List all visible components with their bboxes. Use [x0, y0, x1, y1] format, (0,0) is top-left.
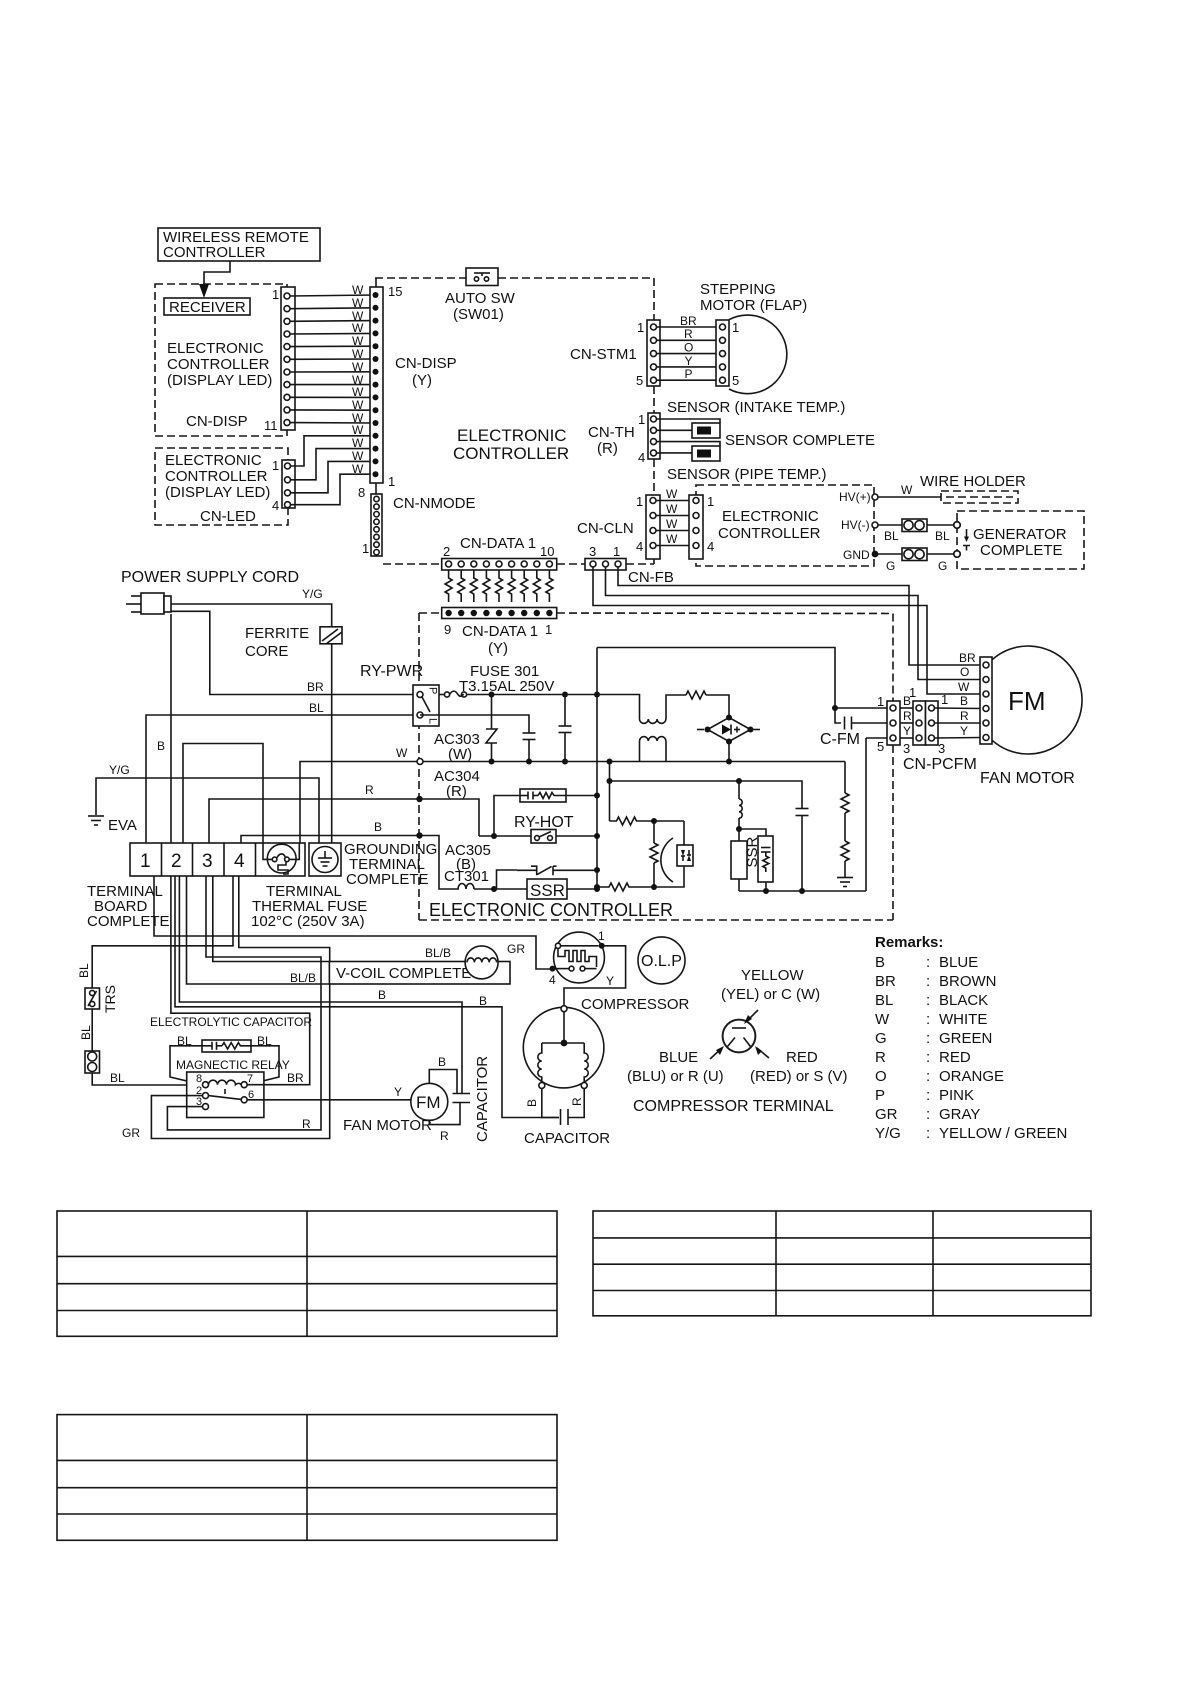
svg-text:COMPRESSOR TERMINAL: COMPRESSOR TERMINAL: [633, 1098, 834, 1115]
svg-text:CN-PCFM: CN-PCFM: [903, 756, 977, 773]
wires CN-STM1 to motor: BR R O Y P: [657, 314, 720, 381]
svg-text:(DISPLAY LED): (DISPLAY LED): [167, 372, 272, 389]
svg-text:BL/B: BL/B: [425, 946, 451, 960]
connector CN-DISP (Y) 15-pin: [370, 278, 402, 494]
svg-text:1: 1: [140, 851, 151, 872]
svg-text:CAPACITOR: CAPACITOR: [524, 1130, 610, 1147]
svg-text:1: 1: [613, 544, 620, 559]
svg-text:POWER SUPPLY CORD: POWER SUPPLY CORD: [121, 569, 299, 586]
svg-text:R: R: [960, 709, 969, 723]
svg-text:R: R: [903, 709, 912, 723]
svg-text:BROWN: BROWN: [939, 973, 997, 990]
svg-text:SENSOR (INTAKE TEMP.): SENSOR (INTAKE TEMP.): [667, 399, 845, 416]
SSR left box: [494, 879, 600, 900]
wire BL terminal4 to TRS: [92, 876, 233, 988]
wire GND G with connector pair: [878, 548, 960, 573]
svg-text:5: 5: [732, 373, 739, 388]
svg-text:1: 1: [636, 494, 643, 509]
svg-text:BL: BL: [110, 1071, 125, 1085]
svg-text:W: W: [396, 746, 408, 760]
wire BL/B to v-coil: [187, 876, 330, 984]
dashed box display controller 2: [155, 448, 288, 525]
wire plug to BR: [171, 611, 414, 694]
svg-text:BR: BR: [287, 1071, 304, 1085]
9 pullup resistors: [445, 570, 553, 602]
O.L.P: [638, 937, 685, 984]
svg-text:CN-DISP: CN-DISP: [186, 413, 248, 430]
svg-text:W: W: [352, 296, 364, 310]
capacitor across line 1: [420, 715, 536, 765]
svg-text:BL: BL: [935, 529, 950, 543]
svg-text:FAN MOTOR: FAN MOTOR: [980, 770, 1075, 787]
connector CN-DATA1 top: [442, 535, 557, 570]
sensor 2 (thermistor pipe): [657, 442, 721, 461]
svg-text:WHITE: WHITE: [939, 1011, 987, 1028]
svg-text:BLUE: BLUE: [939, 954, 978, 971]
svg-text:B: B: [438, 1055, 446, 1069]
svg-text:BR: BR: [680, 314, 697, 328]
dashed box electronic controller (cln): [696, 485, 874, 566]
wires CN-CLN W x4: [656, 487, 689, 546]
crimp arrow mark: [963, 529, 970, 551]
svg-text:ELECTROLYTIC CAPACITOR: ELECTROLYTIC CAPACITOR: [150, 1015, 312, 1029]
svg-text:O: O: [875, 1068, 887, 1085]
connector CN-CLN left 4-pin: [636, 494, 660, 559]
svg-text:GR: GR: [507, 942, 525, 956]
svg-text:1: 1: [707, 494, 714, 509]
svg-text:RED: RED: [939, 1049, 971, 1066]
wire R cell3 to relay pin3: [167, 876, 321, 1131]
magnetic relay: [176, 1058, 290, 1118]
svg-text:FM: FM: [1008, 686, 1046, 716]
compressor motor: [523, 1006, 604, 1107]
svg-text:CONTROLLER: CONTROLLER: [453, 444, 569, 463]
svg-text::: :: [926, 1030, 930, 1047]
svg-text:4: 4: [549, 973, 556, 987]
sensor 1 (thermistor intake): [657, 419, 721, 438]
svg-text:CONTROLLER: CONTROLLER: [718, 525, 821, 542]
svg-text:3: 3: [202, 851, 213, 872]
svg-text:RY-HOT: RY-HOT: [514, 814, 574, 831]
svg-text:7: 7: [247, 1073, 253, 1085]
svg-text:SENSOR (PIPE TEMP.): SENSOR (PIPE TEMP.): [667, 466, 827, 483]
capacitor across line 2: [489, 695, 572, 765]
svg-text:R: R: [365, 783, 374, 797]
svg-text:G: G: [938, 559, 947, 573]
dashed box lower electronic controller: [419, 613, 893, 920]
svg-text:CN-DATA 1: CN-DATA 1: [460, 535, 536, 552]
svg-text:3: 3: [903, 741, 910, 756]
svg-text:1: 1: [545, 622, 552, 637]
svg-text:W: W: [352, 449, 364, 463]
svg-text:BL/B: BL/B: [290, 971, 316, 985]
svg-text:ORANGE: ORANGE: [939, 1068, 1004, 1085]
svg-text:1: 1: [877, 694, 884, 709]
wire HV(+) to wire holder: [878, 496, 941, 498]
capacitor mid right: [796, 809, 809, 895]
svg-text:G: G: [875, 1030, 887, 1047]
wires CN-DISP to CN-DISP(Y) with W labels: [290, 283, 375, 425]
inductor SSR snubber block: [736, 778, 742, 832]
svg-text:(RED) or S (V): (RED) or S (V): [750, 1068, 848, 1085]
svg-text:P: P: [685, 367, 693, 381]
svg-text:(YEL) or C (W): (YEL) or C (W): [721, 986, 820, 1003]
svg-text:R: R: [440, 1129, 449, 1143]
svg-text:1: 1: [732, 320, 739, 335]
connector CN-PCFM pair: [900, 685, 948, 756]
svg-text::: :: [926, 992, 930, 1009]
svg-text:O.L.P: O.L.P: [641, 953, 682, 970]
top horizontal wire: [597, 648, 835, 709]
wire Y protector to compressor: [564, 946, 626, 1006]
svg-text:SSR: SSR: [530, 881, 565, 900]
svg-text:W: W: [666, 532, 678, 546]
triac (photo): [654, 821, 693, 887]
svg-text:1: 1: [637, 320, 644, 335]
svg-text:HV(+): HV(+): [839, 490, 871, 504]
ground EVA: [88, 816, 137, 834]
svg-text:PINK: PINK: [939, 1087, 974, 1104]
svg-text:CT301: CT301: [444, 868, 489, 885]
svg-text:B: B: [374, 820, 382, 834]
wireless remote controller box: [158, 228, 320, 261]
svg-text:RED: RED: [786, 1049, 818, 1066]
wire cell3 to v-coil top: [213, 876, 330, 962]
connector CN-DATA1 (Y) bottom: [442, 608, 557, 658]
svg-text:11: 11: [264, 418, 278, 433]
svg-text:R: R: [684, 327, 693, 341]
svg-text:5: 5: [636, 373, 643, 388]
svg-text:W: W: [901, 483, 913, 497]
svg-text:CN-TH: CN-TH: [588, 424, 635, 441]
svg-text:(R): (R): [446, 783, 467, 800]
table 3: [57, 1415, 557, 1541]
svg-text:4: 4: [234, 851, 245, 872]
grounding terminal complete: [309, 843, 341, 876]
svg-text:W: W: [352, 334, 364, 348]
svg-text:P: P: [875, 1087, 885, 1104]
compressor terminal diagram: [710, 1010, 769, 1059]
wire holder: [920, 473, 1026, 503]
fan capacitor: [429, 1055, 491, 1143]
svg-text:GREEN: GREEN: [939, 1030, 992, 1047]
stepping motor circle: [729, 315, 787, 394]
bottom wire of block: [739, 738, 866, 891]
svg-text:BL: BL: [875, 992, 893, 1009]
svg-text:T3.15AL 250V: T3.15AL 250V: [459, 678, 554, 695]
svg-text:B: B: [525, 1099, 539, 1107]
wires pair to FM connector: [935, 651, 983, 738]
wire GR cell4 to relay pin2: [122, 876, 330, 1140]
connector CN-TH: [638, 412, 660, 465]
wire TRS to fuse connector: [91, 1009, 93, 1051]
svg-text:O: O: [684, 341, 693, 355]
svg-text:BLUE: BLUE: [659, 1049, 698, 1066]
table 1: [57, 1211, 557, 1336]
wire Y/G EVA run: [96, 763, 319, 843]
svg-text:R: R: [302, 1117, 311, 1131]
Y wire relay pin6 to FM: [247, 1085, 411, 1100]
connector CN-CLN right 4-pin: [689, 494, 714, 559]
svg-text:Y: Y: [685, 354, 693, 368]
GND node: [843, 548, 878, 562]
svg-text:(W): (W): [448, 746, 472, 763]
svg-text:BLACK: BLACK: [939, 992, 988, 1009]
svg-text::: :: [926, 1087, 930, 1104]
svg-text:COMPLETE: COMPLETE: [87, 913, 170, 930]
svg-text:P: P: [427, 687, 439, 694]
svg-text:ELECTRONIC: ELECTRONIC: [457, 426, 567, 445]
thermal breaker symbol: [497, 866, 601, 889]
wire W bus drop to row781: [607, 759, 803, 809]
svg-text:1: 1: [941, 692, 948, 707]
svg-text:B: B: [875, 954, 885, 971]
electrolytic capacitor: [150, 1015, 312, 1085]
svg-text:Y: Y: [394, 1085, 402, 1099]
svg-text:B: B: [378, 988, 386, 1002]
resistor top: [686, 691, 729, 717]
svg-text::: :: [926, 1049, 930, 1066]
RY-HOT contact: [479, 830, 600, 844]
remarks legend: [875, 934, 1067, 1142]
svg-text:G: G: [886, 559, 895, 573]
AC304 (R) node: [416, 768, 480, 802]
wire B terminal4 to AC305: [241, 836, 419, 844]
CT301 current transformer: [444, 868, 497, 892]
svg-text:5: 5: [877, 739, 884, 754]
svg-text:(R): (R): [597, 440, 618, 457]
svg-text:(Y): (Y): [412, 372, 432, 389]
wire BR relay pin7 to terminal2: [171, 876, 310, 1085]
svg-text:CN-DISP: CN-DISP: [395, 355, 457, 372]
svg-text:CN-NMODE: CN-NMODE: [393, 495, 476, 512]
svg-text:(SW01): (SW01): [453, 306, 504, 323]
wire BL to relay pin8: [92, 1073, 188, 1085]
connector CN-DISP 11-pin: [264, 287, 295, 433]
TRS: [85, 985, 118, 1013]
svg-text:1: 1: [362, 541, 369, 556]
svg-text:W: W: [666, 502, 678, 516]
svg-text:MOTOR (FLAP): MOTOR (FLAP): [700, 297, 807, 314]
wire HV(-) BL with connector pair: [878, 519, 960, 543]
svg-text:W: W: [352, 347, 364, 361]
AC303 (W) node: [417, 731, 480, 765]
svg-text:3: 3: [938, 741, 945, 756]
svg-text:1: 1: [272, 287, 279, 302]
fan motor circle: [992, 646, 1082, 754]
svg-text:WIRE HOLDER: WIRE HOLDER: [920, 473, 1026, 490]
svg-text:W: W: [352, 462, 364, 476]
svg-text:EVA: EVA: [108, 817, 137, 834]
svg-text:4: 4: [638, 450, 645, 465]
wire B terminal2 to compressor capacitor: [175, 876, 559, 1118]
svg-text:W: W: [352, 321, 364, 335]
RY-HOT coil: [420, 789, 601, 836]
fan motor FM circle: [343, 1083, 448, 1134]
svg-text:B: B: [157, 739, 165, 753]
compressor internal protector: [549, 929, 605, 987]
svg-text:GR: GR: [122, 1126, 140, 1140]
terminal thermal fuse: [263, 843, 299, 874]
svg-text:CN-LED: CN-LED: [200, 508, 256, 525]
compressor capacitor: [524, 1088, 610, 1147]
svg-text:STEPPING: STEPPING: [700, 281, 776, 298]
relay RY-PWR: [360, 663, 439, 726]
wire Y row to bottom: [866, 737, 890, 739]
wire Y/G from plug to ferrite: [171, 604, 332, 627]
svg-text:FAN MOTOR: FAN MOTOR: [343, 1117, 432, 1134]
table 2: [593, 1211, 1091, 1316]
svg-text:O: O: [960, 665, 969, 679]
svg-text:ELECTRONIC CONTROLLER: ELECTRONIC CONTROLLER: [429, 900, 673, 920]
bridge rectifier: [697, 715, 760, 765]
svg-text:(Y): (Y): [488, 640, 508, 657]
svg-text:ELECTRONIC: ELECTRONIC: [722, 508, 819, 525]
svg-text:CN-FB: CN-FB: [628, 569, 674, 586]
svg-text:Remarks:: Remarks:: [875, 934, 943, 951]
svg-text:RECEIVER: RECEIVER: [169, 299, 246, 316]
svg-text:Y/G: Y/G: [302, 587, 323, 601]
connector CN-LED 4-pin: [272, 458, 295, 513]
connector CN-FB 3-pin: [585, 544, 674, 586]
svg-text:W: W: [666, 487, 678, 501]
v-coil complete: [329, 946, 510, 984]
HV(+) node: [839, 490, 878, 504]
ferrite core: [245, 625, 342, 660]
svg-text:MAGNECTIC RELAY: MAGNECTIC RELAY: [176, 1058, 290, 1072]
svg-text:2: 2: [171, 851, 182, 872]
svg-text:8: 8: [358, 485, 365, 500]
svg-text:4: 4: [272, 498, 279, 513]
svg-text:R: R: [875, 1049, 886, 1066]
svg-text:FM: FM: [416, 1093, 441, 1112]
svg-text:BL: BL: [309, 701, 324, 715]
fuse 301: [439, 663, 597, 697]
svg-text:CONTROLLER: CONTROLLER: [163, 244, 266, 261]
dashed boundary upper electronic controller: [375, 278, 654, 564]
svg-text:BL: BL: [884, 529, 899, 543]
svg-text:BR: BR: [875, 973, 896, 990]
svg-text:C-FM: C-FM: [820, 731, 860, 748]
svg-text::: :: [926, 1106, 930, 1123]
dashed box display controller 1: [155, 284, 287, 436]
svg-text:AUTO SW: AUTO SW: [445, 290, 516, 307]
svg-text:BL: BL: [77, 963, 91, 978]
wire Y/G ferrite to grounding terminal: [331, 644, 333, 843]
receiver box: [164, 298, 250, 316]
svg-text:Y: Y: [903, 724, 911, 738]
svg-text:W: W: [958, 680, 970, 694]
ground symbol: [837, 878, 853, 887]
svg-text:GRAY: GRAY: [939, 1106, 980, 1123]
svg-text:W: W: [352, 423, 364, 437]
svg-text:W: W: [352, 360, 364, 374]
wires CN-LED to CN-DISP(Y) pins 12-15: [291, 423, 376, 505]
generator complete dashed box: [954, 511, 1084, 569]
inline fuse connector pair: [85, 1051, 100, 1073]
svg-text:4: 4: [636, 539, 643, 554]
AC305 (B) node: [416, 832, 491, 873]
CN-FB wires to fan motor (BR O W runs): [593, 567, 982, 694]
terminal board complete: [130, 843, 305, 876]
svg-text:CN-STM1: CN-STM1: [570, 346, 637, 363]
fan motor connector strip: [980, 657, 992, 744]
svg-text:1: 1: [909, 685, 916, 700]
svg-text:3: 3: [589, 544, 596, 559]
svg-text:W: W: [875, 1011, 890, 1028]
svg-text::: :: [926, 954, 930, 971]
svg-text:ELECTRONIC: ELECTRONIC: [167, 340, 264, 357]
svg-text:B: B: [960, 694, 968, 708]
svg-text:W: W: [352, 385, 364, 399]
wire GR terminal1 to protector: [154, 876, 550, 969]
svg-text:V-COIL COMPLETE: V-COIL COMPLETE: [336, 965, 471, 982]
SSR right box: [731, 829, 761, 891]
main vertical bus: [596, 648, 598, 890]
svg-text:CAPACITOR: CAPACITOR: [474, 1056, 491, 1142]
svg-text:Y/G: Y/G: [109, 763, 130, 777]
auto switch SW01: [466, 268, 498, 286]
connector CN-NMODE: [358, 485, 382, 556]
svg-text::: :: [926, 1068, 930, 1085]
svg-text:TRS: TRS: [102, 985, 118, 1013]
electronic controller (display led) label: [167, 340, 272, 389]
arrow to receiver: [199, 261, 230, 298]
plug: [126, 593, 171, 614]
svg-text:Y: Y: [960, 724, 968, 738]
W bus wire inside controller: [423, 761, 845, 763]
wire B terminal2 to fan capacitor: [179, 876, 462, 1093]
svg-text:FERRITE: FERRITE: [245, 625, 309, 642]
svg-text:COMPLETE: COMPLETE: [980, 542, 1063, 559]
svg-text:W: W: [352, 436, 364, 450]
svg-text:CN-CLN: CN-CLN: [577, 520, 634, 537]
svg-text:102°C (250V 3A): 102°C (250V 3A): [251, 913, 365, 930]
svg-text:R: R: [570, 1097, 584, 1106]
snubber RC box: [739, 829, 773, 894]
svg-text::: :: [926, 973, 930, 990]
svg-text:1: 1: [388, 474, 395, 489]
svg-text:L: L: [427, 718, 439, 724]
wire W fusecell to AC303: [300, 762, 417, 844]
triac drive block: [594, 781, 684, 891]
svg-text:1: 1: [598, 929, 605, 943]
svg-text:YELLOW: YELLOW: [741, 967, 804, 984]
wire B terminal2 branch: [183, 744, 263, 844]
svg-text:CONTROLLER: CONTROLLER: [167, 356, 270, 373]
svg-text:W: W: [352, 398, 364, 412]
connector CN-PCFM strip 1: [877, 694, 912, 756]
svg-text:BR: BR: [307, 680, 324, 694]
svg-text:CN-DATA 1: CN-DATA 1: [462, 623, 538, 640]
svg-text:YELLOW / GREEN: YELLOW / GREEN: [939, 1125, 1067, 1142]
svg-text:(DISPLAY LED): (DISPLAY LED): [165, 484, 270, 501]
C-FM capacitor: [820, 705, 890, 748]
svg-text:8: 8: [196, 1073, 202, 1085]
junction dots on fuse line: [489, 692, 495, 698]
HV(-) node: [841, 518, 878, 532]
wire plug down to terminal 2: [170, 614, 172, 843]
svg-text:ELECTRONIC: ELECTRONIC: [165, 452, 262, 469]
svg-text:1: 1: [272, 458, 279, 473]
svg-text:HV(-): HV(-): [841, 518, 870, 532]
svg-text:COMPRESSOR: COMPRESSOR: [581, 996, 690, 1013]
resistor chain to ground: [841, 762, 849, 878]
svg-text:Y/G: Y/G: [875, 1125, 901, 1142]
wire BL terminal1 to relay: [146, 715, 414, 843]
svg-text:RY-PWR: RY-PWR: [360, 663, 423, 680]
svg-text:15: 15: [388, 284, 402, 299]
